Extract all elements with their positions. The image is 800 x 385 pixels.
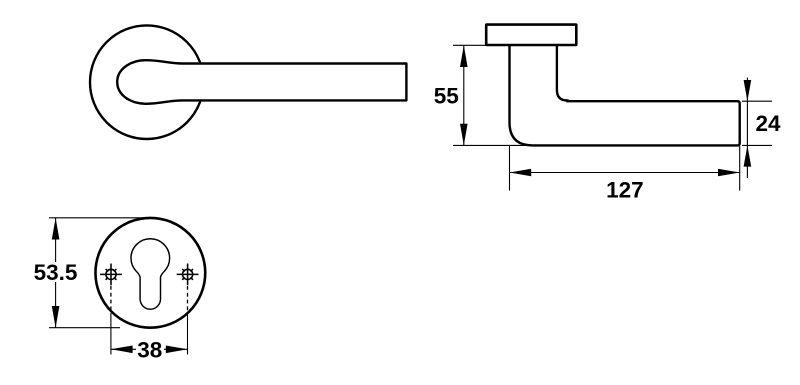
label 38 — [136, 340, 164, 358]
svg-text:127: 127 — [606, 177, 644, 202]
arrow left (127) — [510, 169, 532, 177]
extension line down from right screw (38) — [187, 313, 189, 355]
label 53.5 — [33, 262, 78, 282]
dimension line 24 (vertical, arrows outside) — [746, 78, 748, 178]
lever handle outline (front view) — [117, 60, 406, 104]
arrow up onto grip bottom (24) — [744, 145, 752, 166]
dimension line 53.5 (vertical) — [55, 218, 57, 328]
extension line top of escutcheon (53.5) — [49, 217, 146, 219]
escutcheon circle — [95, 218, 205, 328]
dimension line 38 (horizontal) — [111, 348, 188, 350]
arrow right (127) — [718, 169, 740, 177]
screw hole symbol left — [100, 264, 122, 286]
left screw cross vertical — [110, 264, 112, 286]
arrow down (55 bottom) — [460, 124, 468, 146]
right screw diagonal ticks — [191, 269, 194, 272]
extension line right of grip top (24 top) — [742, 100, 772, 102]
extension line bottom of escutcheon (53.5) — [49, 327, 120, 329]
arrow up (53.5) — [52, 218, 60, 240]
svg-text:53.5: 53.5 — [34, 260, 78, 285]
screw hole symbol right — [177, 264, 199, 286]
arrow left (38) — [111, 346, 133, 354]
extension line left of rose bottom (55 top) — [453, 44, 508, 46]
euro profile cylinder cutout — [131, 239, 170, 309]
extension line down from left screw (38) — [110, 313, 112, 355]
left screw circle — [106, 269, 116, 279]
arrow down (53.5) — [52, 306, 60, 328]
extension line down from grip end (127 right) — [739, 146, 741, 191]
dimension line 127 (horizontal) — [510, 172, 740, 174]
rose (side view rectangle) — [486, 25, 576, 45]
dashed centre line right screw — [187, 286, 189, 313]
svg-text:38: 38 — [137, 337, 162, 362]
extension line bottom of grip (55 bottom) — [453, 144, 531, 146]
left screw cross horizontal — [100, 273, 122, 275]
arrow down onto grip top (24) — [744, 80, 752, 101]
arrow right (38) — [166, 346, 188, 354]
svg-text:55: 55 — [434, 84, 459, 109]
left screw diagonal ticks — [114, 269, 117, 272]
right screw cross vertical — [187, 264, 189, 286]
arrow up (55 top) — [460, 45, 468, 67]
dimension line 55 (vertical) — [463, 45, 465, 145]
right screw circle — [183, 269, 193, 279]
rose circle (front view) — [90, 25, 204, 139]
right screw cross horizontal — [177, 273, 199, 275]
extension line down from neck left (127 left) — [509, 146, 511, 191]
lever profile (side view) — [510, 46, 740, 146]
svg-text:24: 24 — [755, 111, 781, 136]
dashed centre line left screw — [110, 286, 112, 313]
extension line right of grip bottom (24 bottom) — [742, 144, 772, 146]
